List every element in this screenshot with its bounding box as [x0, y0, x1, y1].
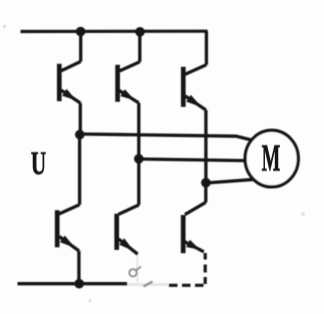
transistor V3 (upper, phase C) — [183, 31, 206, 110]
wire: V2 emitter to node B — [137, 103, 140, 159]
wire: V5 emitter to bottom rail (faded in scan) — [136, 254, 138, 282]
transistor V2 (upper, phase B) — [118, 32, 140, 103]
transistor V1 (upper, phase A) — [59, 32, 80, 104]
junction: node C — [201, 178, 211, 188]
scan artifact: small slash on rail — [144, 282, 153, 287]
wire: V4 emitter to bottom rail — [77, 251, 80, 284]
scan artifact: sigma mark — [129, 267, 141, 277]
wire: V1 emitter to node A — [79, 103, 82, 135]
bottom DC bus wire (-), solid left part — [18, 282, 128, 285]
junction: node A — [75, 130, 85, 140]
junction: node B — [134, 154, 144, 164]
wire: V6 emitter to bottom rail (broken dashes in scan) — [204, 253, 207, 284]
junction: top rail / leg A — [76, 27, 86, 37]
transistor V4 (lower, phase A) — [57, 135, 79, 251]
transistor V6 (lower, phase C) — [183, 183, 206, 254]
junction: top rail / leg B — [135, 27, 145, 37]
wire: phase C to motor — [206, 179, 256, 183]
bottom DC bus wire, faded middle part — [127, 283, 168, 285]
top DC bus wire (+) — [21, 30, 208, 33]
bottom DC bus wire, broken right part — [169, 284, 207, 287]
svg-text:U: U — [31, 144, 46, 181]
wire: phase A to motor — [80, 134, 252, 140]
junction: bottom rail / leg A — [74, 279, 84, 289]
motor M1 circle — [245, 130, 298, 187]
transistor V5 (lower, phase B) — [117, 159, 139, 254]
svg-text:M: M — [262, 137, 281, 180]
wire: phase B to motor — [139, 159, 246, 161]
wire: V3 emitter to node C — [204, 110, 207, 183]
